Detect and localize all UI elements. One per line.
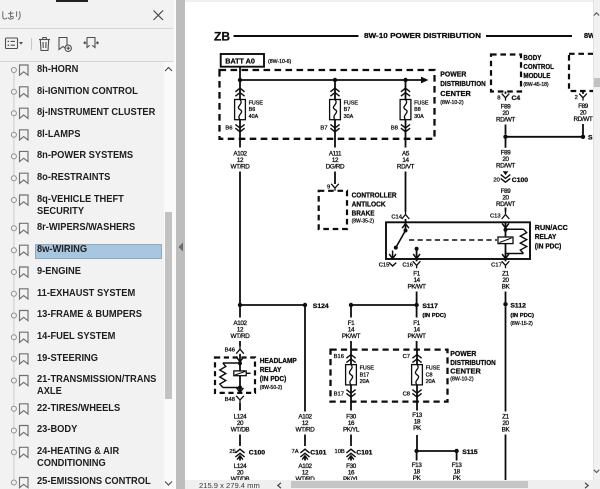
wire F30 16 PK/YL [350,402,352,411]
wire F13 18 PK [416,402,418,411]
relay C16 contact [415,247,419,251]
svg-text:ANTILOCK: ANTILOCK [352,200,387,209]
body control module box (dashed) [491,55,521,92]
svg-text:FUSE: FUSE [249,100,264,106]
svg-text:RUN/ACC: RUN/ACC [535,223,569,232]
wire to controller antilock brake [334,172,336,185]
divider [31,38,33,50]
svg-text:FUSE: FUSE [344,100,359,106]
svg-text:C14: C14 [391,214,402,220]
connector B46 [236,346,244,354]
connector C13 [502,212,510,220]
wire A102 lower [304,457,306,461]
node bus-B7 [333,78,337,82]
svg-text:(8W-10-6): (8W-10-6) [268,59,292,65]
svg-text:C13: C13 [490,214,501,220]
relay coil wires [506,228,524,230]
svg-text:20: 20 [493,177,499,183]
svg-text:PK: PK [413,425,422,432]
svg-text:B7: B7 [320,126,327,132]
svg-text:CENTER: CENTER [450,366,481,375]
splice S112 [503,302,507,306]
svg-text:C8: C8 [403,391,410,397]
svg-text:C17: C17 [491,262,502,268]
node bus-B8 [403,78,407,82]
svg-text:25: 25 [229,449,235,455]
svg-text:FUSE: FUSE [426,366,441,372]
wire F1 below S117 left [350,307,352,318]
svg-text:PK/WT: PK/WT [407,333,426,340]
wire F30 lower [350,457,352,461]
svg-text:WT/DB: WT/DB [231,427,250,434]
svg-text:9: 9 [327,184,330,190]
svg-text:DG/RD: DG/RD [326,164,345,171]
svg-text:B8: B8 [414,107,421,113]
svg-text:DISTRIBUTION: DISTRIBUTION [440,79,486,88]
node bus-B6 [238,78,242,82]
wire L124 20 WT/DB [239,403,241,411]
svg-text:B17: B17 [334,391,344,397]
wire A102 below S124 [239,307,241,318]
bookmark labels [0,0,600,1]
svg-text:CONTROLLER: CONTROLLER [352,191,398,200]
svg-text:C100: C100 [512,177,528,184]
fuse B7 [334,80,336,100]
svg-text:MODULE: MODULE [523,71,550,80]
svg-text:RD/WT: RD/WT [496,163,515,170]
relay C14 wire in [405,219,407,231]
svg-text:PK/YL: PK/YL [343,427,360,434]
relay linkage (dashed) [409,239,497,241]
svg-text:RD/VT: RD/VT [397,164,415,171]
wire Z1 below S112 [505,306,507,411]
svg-text:2: 2 [575,95,578,101]
svg-text:40A: 40A [249,114,259,120]
svg-text:S124: S124 [313,303,329,310]
svg-text:8W-10 POWER DISTRIBUTION: 8W-10 POWER DISTRIBUTION [364,31,481,40]
wire F1 below S117 right [416,307,418,318]
svg-text:C15: C15 [379,262,390,268]
wire F89 20 RD/WT (2) [505,139,507,148]
divider bar [174,0,177,489]
svg-text:(IN PDC): (IN PDC) [422,313,446,319]
headlamp relay contact [239,363,241,388]
svg-text:FUSE: FUSE [414,100,429,106]
wire S124 branch down [304,307,306,412]
svg-text:(8W-35-2): (8W-35-2) [352,219,375,225]
top black tab remnant [56,0,88,2]
svg-text:FUSE: FUSE [360,366,375,372]
relay C13 wire in [505,222,507,229]
svg-text:C101: C101 [356,450,372,457]
splice S124 [238,303,242,307]
svg-text:7A: 7A [292,449,299,455]
wire L124 lower [239,457,241,461]
svg-text:RD/WT: RD/WT [574,116,593,123]
svg-text:PK/WT: PK/WT [407,284,426,291]
splice S115 [414,449,418,453]
connector 9 Y [331,184,339,191]
svg-text:B7: B7 [344,107,351,113]
relay coil [520,229,526,253]
svg-text:S112: S112 [510,303,526,310]
relay switch arm [396,231,406,248]
svg-text:ZB: ZB [214,29,230,43]
svg-text:RELAY: RELAY [535,232,557,241]
node S (clipped) [581,135,585,139]
svg-text:CONTROL: CONTROL [523,62,554,71]
svg-text:POWER: POWER [440,70,467,79]
svg-text:BK: BK [502,427,511,434]
options/list icon [6,38,18,49]
bookmark arrows [84,38,99,48]
svg-text:S115: S115 [462,449,478,456]
run/acc relay box [386,222,530,259]
svg-text:S117: S117 [422,303,438,310]
headlamp relay wire in [239,354,241,364]
svg-text:8: 8 [497,95,500,101]
wire A5 14 RD/VT [405,135,407,148]
svg-text:B17: B17 [360,372,370,378]
toolbar icons [4,35,104,54]
partial module box (dashed) [569,54,600,91]
relay switch pivot [404,229,408,233]
wire to relay C13 [505,208,507,212]
wire fuse B6 down [239,172,241,304]
svg-text:30A: 30A [414,114,424,120]
connector C16 [416,259,418,261]
svg-text:10B: 10B [334,449,344,455]
svg-text:C4: C4 [512,95,521,102]
svg-text:BRAKE: BRAKE [352,208,375,217]
svg-text:RD/WT: RD/WT [496,201,515,208]
wire BATT to bus [239,67,241,80]
fuse B8 [405,80,407,100]
svg-text:20A: 20A [360,379,370,385]
svg-text:(8W-10-2): (8W-10-2) [450,377,474,383]
svg-text:(8W-50-2): (8W-50-2) [260,385,283,391]
connector C17 [505,259,507,261]
svg-text:(8W-15-2): (8W-15-2) [510,321,533,327]
controller antilock brake box (dashed) [319,191,347,229]
svg-text:C16: C16 [402,262,413,268]
svg-text:WT/RD: WT/RD [231,333,251,340]
pin 2 connector [582,91,584,94]
panel scrollbar [164,62,174,489]
power distribution center box (dashed) [220,70,435,139]
svg-text:30A: 30A [344,114,354,120]
bus wire [240,79,422,81]
svg-text:B6: B6 [249,107,256,113]
svg-text:CENTER: CENTER [440,89,471,98]
svg-text:RELAY: RELAY [260,365,282,374]
headlamp relay wire out [239,388,241,393]
node S-junction BCM [503,135,507,139]
svg-text:WT/RD: WT/RD [296,427,316,434]
wire A102 12 WT/RD [239,135,241,148]
wire F13 below S115 right [456,453,458,461]
svg-text:B16: B16 [334,354,344,360]
svg-text:B48: B48 [225,397,235,403]
headlamp relay box (dashed) [215,358,255,393]
panel close X [152,9,165,22]
panel title しおり (drawn glyphs) [2,11,24,21]
relay C15 terminal arrow [392,251,394,259]
svg-text:BK: BK [502,284,511,291]
wire to headlamp relay B46 [239,341,241,346]
selected row highlight [35,244,162,260]
bookmark plus [59,38,67,50]
relay armature [498,237,513,244]
svg-text:C8: C8 [426,372,433,378]
svg-text:HEADLAMP: HEADLAMP [260,356,297,365]
trash [39,39,50,41]
wire F13 below S115 left [416,453,418,461]
svg-text:WT/RD: WT/RD [231,164,251,171]
svg-text:PK/WT: PK/WT [342,333,361,340]
relay C17 wire out [505,254,507,260]
header rule left [234,35,359,37]
svg-text:B8: B8 [391,126,398,132]
wire A111 12 DG/RD [334,135,336,148]
svg-text:BODY: BODY [523,53,541,62]
svg-text:C7: C7 [403,354,410,360]
svg-text:B6: B6 [225,126,232,132]
power distribution center 2 box (dashed) [331,350,448,402]
svg-text:RD/WT: RD/WT [496,117,515,124]
headlamp relay coil branch [223,362,240,364]
svg-text:(8W-45-18): (8W-45-18) [523,82,549,88]
battery feed BATT A0 [221,54,264,67]
splice S117 [349,303,353,307]
bookmark tree (line+circles+flags) [0,0,34,489]
svg-text:C101: C101 [310,450,326,457]
wire to relay C14 [405,172,407,212]
svg-text:(IN PDC): (IN PDC) [535,242,562,251]
svg-text:(IN PDC): (IN PDC) [510,313,534,319]
header rule right [486,35,572,37]
svg-text:B46: B46 [225,348,235,354]
svg-text:BATT A0: BATT A0 [225,56,255,65]
svg-text:20A: 20A [426,379,436,385]
pin 8 connector C4 [505,92,507,94]
svg-text:C100: C100 [249,450,265,457]
wire splice line [506,136,584,138]
svg-text:(IN PDC): (IN PDC) [260,374,287,383]
svg-text:(8W-10-2): (8W-10-2) [440,100,464,106]
fuse B6 [239,80,241,100]
